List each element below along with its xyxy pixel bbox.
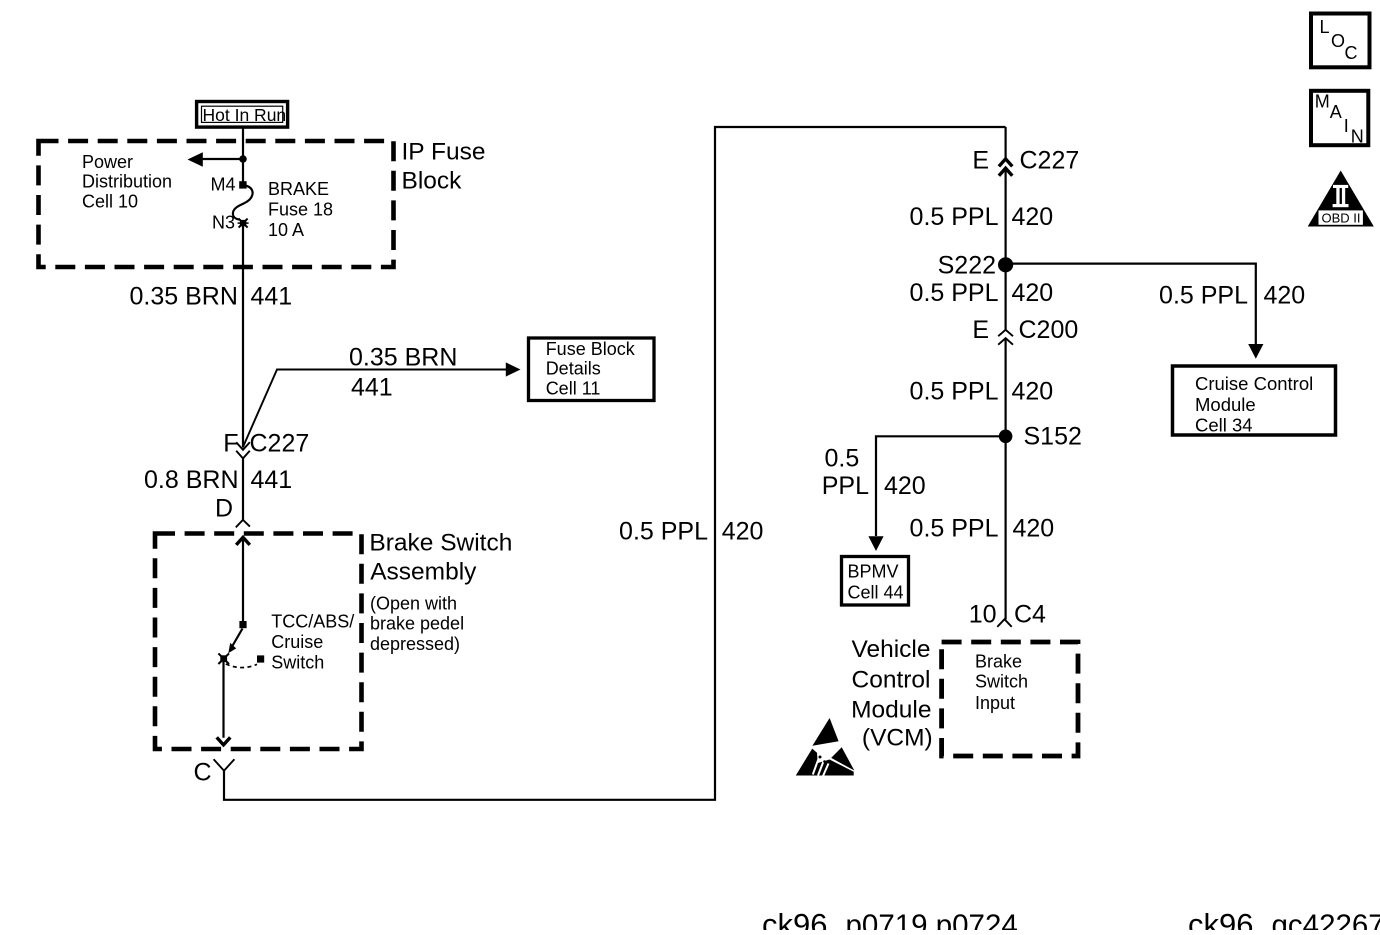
svg-text:I: I (1344, 116, 1349, 136)
svg-text:Cruise: Cruise (271, 632, 323, 652)
arrowhead into BPMV (868, 536, 883, 551)
wire 0.8 BRN 441 from C227 to brake switch (242, 458, 244, 519)
connector C cup (below brake switch) (214, 759, 235, 771)
svg-text:Block: Block (402, 167, 463, 194)
Vehicle Control Module dashed boundary (Brake Switch Input) (942, 642, 1078, 756)
svg-text:BPMV: BPMV (848, 562, 899, 582)
switch travel dashed arc (226, 664, 257, 668)
splice S222 dot (998, 257, 1013, 272)
arrowhead into Cruise Control Module (1248, 344, 1263, 359)
branch wire from S152 to BPMV (876, 436, 1006, 536)
svg-text:0.35 BRN: 0.35 BRN (349, 344, 457, 372)
svg-text:Cell 44: Cell 44 (848, 583, 904, 603)
wire from S152 down to VCM pin 10 C4 (1004, 437, 1006, 619)
svg-text:420: 420 (722, 517, 764, 545)
wire inside brake switch from D to switch contact (242, 538, 244, 622)
fuse terminal N3 star (238, 219, 249, 228)
IP Fuse Block dashed boundary (39, 141, 394, 267)
svg-text:Assembly: Assembly (370, 558, 477, 585)
svg-text:BRAKE: BRAKE (268, 179, 329, 199)
connector C arrowhead (inside brake switch) (217, 737, 231, 745)
svg-text:Switch: Switch (271, 652, 324, 672)
branch wire to Fuse Block Details (243, 370, 514, 448)
svg-text:ck96: ck96 (1188, 907, 1253, 930)
svg-text:420: 420 (1012, 203, 1054, 231)
wire label 0.35 BRN 441 (130, 283, 293, 311)
svg-text:Vehicle: Vehicle (851, 636, 930, 663)
wire from Hot In Run down into fuse block (242, 128, 244, 183)
branch wire label 0.35 BRN 441 (349, 344, 457, 402)
branch wire label 0.5 PPL 420 (BPMV) (822, 445, 926, 501)
svg-text:Switch: Switch (975, 672, 1028, 692)
svg-text:0.5 PPL: 0.5 PPL (619, 517, 708, 545)
arrowhead to Power Distribution (188, 152, 203, 166)
svg-text:Hot In Run: Hot In Run (203, 105, 287, 125)
connector C227 pin F labels (223, 430, 309, 458)
connector C227 F symbol (arrow into cup) (236, 442, 250, 458)
svg-text:441: 441 (251, 466, 293, 494)
svg-text:PPL: PPL (822, 472, 869, 500)
svg-text:IP Fuse: IP Fuse (402, 139, 486, 166)
svg-text:420: 420 (1012, 377, 1054, 405)
svg-text:Brake Switch: Brake Switch (369, 529, 512, 556)
wire from fuse N3 down to connector C227 (242, 222, 244, 448)
wire from S222 down to E C200 (1004, 265, 1006, 330)
Fuse Block Details Cell 11 box (529, 338, 655, 401)
connector pin 10 C4 labels (969, 601, 1046, 629)
svg-text:420: 420 (1264, 282, 1306, 310)
svg-text:Brake: Brake (975, 652, 1022, 672)
Vehicle Control Module (VCM) label (851, 636, 933, 752)
wire from E C200 down to splice S152 (1004, 338, 1006, 437)
svg-text:(Open with: (Open with (370, 594, 457, 614)
svg-text:0.5: 0.5 (825, 445, 860, 473)
connector C227 pin E labels (right) (972, 147, 1079, 175)
svg-text:M: M (1315, 92, 1330, 112)
svg-text:441: 441 (251, 283, 293, 311)
svg-text:E: E (972, 316, 989, 344)
ESD sensitivity symbol (796, 718, 855, 776)
Brake Switch Assembly label (369, 529, 512, 585)
svg-text:420: 420 (1012, 279, 1054, 307)
IP Fuse Block label (402, 139, 486, 195)
svg-text:TCC/ABS/: TCC/ABS/ (271, 612, 354, 632)
Cruise Control Module Cell 34 box (1173, 366, 1336, 436)
branch wire from S222 to Cruise Control Module (1006, 264, 1256, 356)
wire from switch down to connector C (222, 662, 224, 738)
svg-text:10: 10 (969, 601, 997, 629)
wire from C cup down and across to VCM branch (224, 127, 1006, 800)
svg-text:D: D (215, 495, 233, 523)
connector E C227 symbol (cup over arrowhead) (999, 159, 1012, 176)
connector D cup (outside brake switch) (236, 520, 250, 528)
svg-text:ck96: ck96 (762, 907, 827, 930)
svg-text:420: 420 (1013, 515, 1055, 543)
svg-text:S152: S152 (1024, 423, 1082, 451)
svg-text:N3: N3 (212, 213, 235, 233)
fuse value label BRAKE Fuse 18 10 A (268, 179, 333, 240)
branch wire label 0.5 PPL 420 (cruise) (1159, 282, 1305, 310)
svg-text:gc42267: gc42267 (1272, 909, 1380, 930)
svg-text:Details: Details (546, 358, 601, 378)
svg-text:O: O (1331, 31, 1345, 51)
switch upper contact square (239, 621, 246, 628)
MAIN legend box (1311, 91, 1368, 147)
svg-text:0.35 BRN: 0.35 BRN (130, 283, 238, 311)
note (Open with brake pedel depressed) (370, 594, 464, 654)
connector D arrowhead (inside brake switch) (236, 537, 250, 545)
switch blade arrowhead (228, 643, 236, 653)
svg-text:C: C (1345, 43, 1358, 63)
power source label "Hot In Run" box (197, 102, 288, 128)
svg-text:N: N (1351, 127, 1364, 147)
svg-text:Input: Input (975, 693, 1015, 713)
wire label 0.5 PPL 420 (above S222) (910, 203, 1054, 231)
wire to Power Distribution arrow (201, 158, 243, 160)
arrowhead into Fuse Block Details (506, 362, 521, 376)
svg-text:Power: Power (82, 152, 133, 172)
svg-text:Cell 34: Cell 34 (1195, 415, 1253, 436)
svg-text:C: C (193, 759, 211, 787)
wire from E C227 down to splice S222 (1004, 168, 1006, 265)
Brake Switch Assembly dashed boundary (155, 534, 362, 750)
wire label 0.5 PPL 420 (long run) (619, 517, 763, 545)
svg-text:Distribution: Distribution (82, 172, 172, 192)
switch lower-left contact star (218, 653, 229, 664)
svg-text:Control: Control (852, 666, 931, 693)
footer plate code left (762, 907, 1018, 935)
footer plate code right (1188, 907, 1380, 935)
svg-text:0.5 PPL: 0.5 PPL (910, 515, 999, 543)
svg-text:0.8 BRN: 0.8 BRN (144, 466, 238, 494)
Brake Switch Input label (975, 652, 1028, 713)
svg-text:Fuse 18: Fuse 18 (268, 200, 333, 220)
fuse BRAKE Fuse 18 10A element (squiggle) (233, 186, 253, 220)
svg-text:420: 420 (884, 472, 926, 500)
OBD II symbol triangle (1308, 171, 1374, 227)
svg-text:brake pedel: brake pedel (370, 614, 464, 634)
svg-text:C227: C227 (250, 430, 310, 458)
connector E C200 symbol (cup over arrowhead) (998, 330, 1013, 345)
svg-text:441: 441 (351, 374, 393, 402)
wire label 0.5 PPL 420 (above S152) (910, 377, 1054, 405)
svg-text:0.5 PPL: 0.5 PPL (910, 203, 999, 231)
svg-text:0.5 PPL: 0.5 PPL (910, 279, 999, 307)
svg-text:C4: C4 (1014, 601, 1046, 629)
svg-text:Module: Module (1195, 394, 1256, 415)
fuse terminal M4 square (239, 181, 246, 188)
wire label 0.5 PPL 420 (below S222) (910, 279, 1054, 307)
svg-text:Cell 10: Cell 10 (82, 191, 138, 211)
svg-text:OBD II: OBD II (1322, 210, 1361, 225)
svg-text:0.5 PPL: 0.5 PPL (910, 377, 999, 405)
connector C4 cup at VCM (997, 619, 1011, 627)
svg-text:p0719 p0724: p0719 p0724 (846, 909, 1018, 930)
BPMV Cell 44 box (842, 557, 909, 606)
svg-text:(VCM): (VCM) (862, 725, 933, 752)
svg-text:L: L (1320, 17, 1330, 37)
svg-text:C200: C200 (1019, 316, 1079, 344)
svg-text:A: A (1330, 102, 1342, 122)
svg-text:M4: M4 (210, 175, 235, 195)
svg-text:Cruise Control: Cruise Control (1195, 373, 1313, 394)
svg-text:10 A: 10 A (268, 220, 304, 240)
connector C200 pin E labels (972, 316, 1078, 344)
splice S152 dot (999, 430, 1013, 444)
svg-text:depressed): depressed) (370, 634, 460, 654)
svg-text:E: E (972, 147, 989, 175)
TCC/ABS/Cruise Switch label (271, 612, 354, 673)
svg-text:Fuse Block: Fuse Block (546, 339, 636, 359)
svg-text:Module: Module (851, 697, 931, 724)
switch lower-right contact square (257, 655, 264, 662)
LOC legend box (1311, 14, 1370, 68)
wire from top run down to E C227 (1004, 127, 1006, 159)
wire label 0.5 PPL 420 (to VCM) (910, 515, 1055, 543)
wire label 0.8 BRN 441 (144, 466, 292, 494)
Power Distribution Cell 10 label (82, 152, 172, 211)
svg-text:0.5 PPL: 0.5 PPL (1159, 282, 1248, 310)
svg-text:Cell 11: Cell 11 (546, 378, 601, 398)
switch blade (232, 629, 243, 648)
svg-text:C227: C227 (1020, 147, 1080, 175)
node junction dot at power feed (239, 155, 247, 163)
svg-text:S222: S222 (938, 252, 996, 280)
